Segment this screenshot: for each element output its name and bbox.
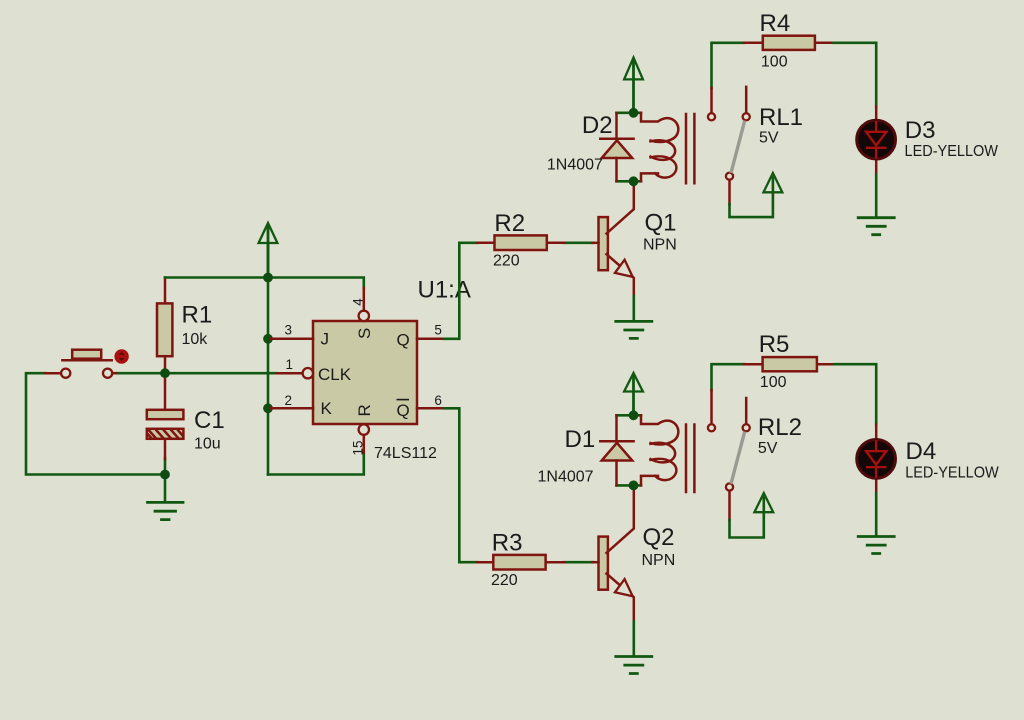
push button SW1 right contact circle xyxy=(103,369,112,378)
svg-text:Q1: Q1 xyxy=(645,209,677,236)
resistor R2 body xyxy=(495,235,547,250)
junction node: VCC / D2 / coil top xyxy=(629,108,639,118)
U1 pin 3 stub (J) xyxy=(271,338,314,341)
relay RL2 pole contact circle xyxy=(708,424,715,431)
relay RL1 core lines xyxy=(686,114,694,183)
wire: R4 to LED D3 xyxy=(834,43,877,107)
push button SW1 red actuator inner mark xyxy=(119,352,125,361)
resistor R4 left pin xyxy=(744,42,763,45)
relay RL2 core lines xyxy=(686,425,694,493)
transistor Q1 collector xyxy=(607,181,634,233)
capacitor C1 bottom plate xyxy=(147,429,184,439)
relay RL1 throw pin xyxy=(745,87,748,113)
power arrow VCC at RL2 common xyxy=(754,493,773,512)
svg-text:Q2: Q2 xyxy=(643,524,675,551)
ground symbol below Q2 xyxy=(616,657,652,674)
wire: RL1 common to VCC arrow xyxy=(730,178,773,218)
push button SW1 left contact circle xyxy=(61,369,70,378)
svg-text:10k: 10k xyxy=(182,331,209,348)
svg-text:J: J xyxy=(321,330,330,349)
wire: button left lead to loop xyxy=(26,373,165,474)
wire: R3 to Q2 base xyxy=(564,561,593,564)
diode D1 cathode bar xyxy=(600,440,633,443)
U1 Q-bar overline xyxy=(397,399,410,401)
LED D4 top pin xyxy=(875,425,878,439)
junction node: bus / pin K xyxy=(263,403,273,413)
svg-text:S: S xyxy=(355,328,374,339)
diode D2 body triangle xyxy=(602,140,633,158)
svg-text:R1: R1 xyxy=(182,302,213,329)
wire: Q-bar output to R3 xyxy=(444,408,478,562)
push button SW1 plunger xyxy=(72,350,101,359)
ground symbol below D3 xyxy=(858,218,894,235)
ground symbol below D4 xyxy=(858,537,894,554)
transistor Q2 base bar xyxy=(599,537,608,590)
capacitor C1 top pin xyxy=(164,373,167,410)
wire: LED D3 to ground xyxy=(875,175,878,218)
svg-text:220: 220 xyxy=(491,572,518,589)
svg-text:6: 6 xyxy=(434,393,442,408)
relay RL1 pole contact circle xyxy=(708,113,715,120)
resistor R5 body xyxy=(763,357,817,371)
wire: Q output to R2 xyxy=(444,243,478,339)
relay RL2 switch arm xyxy=(731,432,745,484)
wire: Q1 emitter to ground xyxy=(632,296,635,321)
resistor R3 left pin xyxy=(477,561,495,564)
svg-text:74LS112: 74LS112 xyxy=(374,445,437,462)
svg-text:2: 2 xyxy=(285,393,293,408)
IC U1:A 74LS112 JK flip-flop body xyxy=(313,321,417,424)
wire: VCC node to D1 and coil xyxy=(617,414,642,417)
diode D2 anode lead xyxy=(615,158,618,181)
transistor Q2 emitter arrow xyxy=(615,579,633,596)
relay RL2 common pin down xyxy=(728,491,731,521)
svg-text:1: 1 xyxy=(286,357,294,372)
capacitor C1 bottom plate hatch xyxy=(148,431,182,439)
U1 pin 2 stub (K) xyxy=(271,407,314,410)
push button SW1 right pin xyxy=(113,372,117,375)
resistor R1 bottom pin xyxy=(164,356,167,373)
U1 S bubble xyxy=(359,311,369,321)
resistor R1 top pin xyxy=(164,278,167,305)
svg-text:K: K xyxy=(321,399,333,418)
junction node: C1 bottom / loop / ground xyxy=(160,470,170,480)
LED D3 body xyxy=(857,120,896,159)
wire: R5 to LED D4 xyxy=(834,364,876,425)
svg-text:C1: C1 xyxy=(194,407,225,434)
power arrow VCC on flip-flop bus xyxy=(267,227,270,278)
ground symbol below C1 xyxy=(148,502,184,519)
svg-text:U1:A: U1:A xyxy=(418,277,471,304)
svg-text:4: 4 xyxy=(351,298,366,306)
transistor Q1 base bar xyxy=(599,217,608,270)
U1 pin 6 stub (Q-bar) xyxy=(417,407,444,410)
push button SW1 left pin xyxy=(45,372,61,375)
LED D3 bottom pin xyxy=(875,160,878,175)
svg-text:R: R xyxy=(355,404,374,416)
wire: C1 bottom to ground node xyxy=(164,458,167,502)
U1 pin 4 stub (S) xyxy=(363,288,366,310)
svg-text:5: 5 xyxy=(434,323,442,338)
U1 CLK bubble xyxy=(303,368,313,378)
diode D2 cathode bar xyxy=(600,138,633,141)
LED D4 bottom pin xyxy=(875,479,878,493)
svg-text:3: 3 xyxy=(285,323,293,338)
push button SW1 red actuator marker xyxy=(114,349,128,363)
diode D1 body triangle xyxy=(602,443,633,461)
relay RL1 common contact circle xyxy=(726,173,733,180)
diode D1 cathode lead xyxy=(615,415,618,440)
resistor R3 right pin xyxy=(547,561,565,564)
wire: top rail R1 to S pin xyxy=(165,278,364,289)
relay RL2 pole pin xyxy=(710,390,713,424)
wire: R2 to Q1 base xyxy=(564,242,593,245)
junction node: VCC / D1 / coil top xyxy=(629,410,639,420)
resistor R4 right pin xyxy=(814,42,834,45)
svg-text:CLK: CLK xyxy=(318,365,352,384)
relay RL1 coil xyxy=(641,113,678,182)
relay RL1 pole pin xyxy=(710,88,713,113)
wire: button right to CLK pin 1 xyxy=(116,372,277,375)
svg-text:10u: 10u xyxy=(194,436,221,453)
svg-text:NPN: NPN xyxy=(643,236,677,253)
svg-text:D2: D2 xyxy=(582,112,613,139)
transistor Q1 base pin xyxy=(593,242,599,245)
power arrow VCC above relay RL2 coil xyxy=(632,377,635,415)
wire: VCC node to D2 and coil xyxy=(617,112,642,115)
LED D4 body xyxy=(857,440,896,479)
relay RL2 common contact circle xyxy=(726,483,733,490)
svg-text:LED-YELLOW: LED-YELLOW xyxy=(905,143,999,160)
svg-text:1N4007: 1N4007 xyxy=(547,156,603,173)
resistor R5 right pin xyxy=(816,363,834,366)
svg-text:100: 100 xyxy=(761,54,788,71)
wire: VCC bus vertical xyxy=(267,243,270,475)
U1 R bubble xyxy=(359,424,369,434)
relay RL1 throw contact circle xyxy=(743,113,750,120)
svg-text:100: 100 xyxy=(760,374,787,391)
power arrow VCC at RL1 common xyxy=(764,173,783,192)
transistor Q2 base pin xyxy=(593,561,599,564)
wire: R4 to RL1 pole xyxy=(712,43,745,89)
LED D4 diode symbol xyxy=(866,440,886,478)
svg-text:D3: D3 xyxy=(905,117,936,144)
junction node: Q1 collector / D2 / coil bottom xyxy=(629,176,639,186)
wire: Q2 emitter to ground xyxy=(632,622,635,657)
svg-text:RL2: RL2 xyxy=(758,414,802,441)
LED D3 top pin xyxy=(875,107,878,120)
transistor Q2 emitter xyxy=(607,574,634,622)
wire: RL2 common to VCC arrow xyxy=(730,498,764,538)
svg-text:5V: 5V xyxy=(759,129,779,146)
transistor Q1 emitter xyxy=(607,254,634,296)
relay RL2 throw pin xyxy=(745,398,748,424)
transistor Q1 emitter arrow xyxy=(615,260,633,277)
svg-text:R4: R4 xyxy=(760,10,791,37)
svg-text:D1: D1 xyxy=(565,426,596,453)
svg-text:R3: R3 xyxy=(492,530,523,557)
svg-text:15: 15 xyxy=(351,440,366,455)
resistor R4 body xyxy=(763,36,815,50)
relay RL2 throw contact circle xyxy=(743,424,750,431)
resistor R2 left pin xyxy=(477,242,495,245)
svg-text:5V: 5V xyxy=(758,440,778,457)
resistor R1 body xyxy=(157,303,172,356)
relay RL1 switch arm xyxy=(731,121,745,173)
wire: bottom node to D2 and coil xyxy=(617,180,642,183)
relay RL1 common pin down xyxy=(728,180,731,205)
junction node: bus / pin J xyxy=(263,334,273,344)
svg-text:NPN: NPN xyxy=(642,552,676,569)
wire: LED D4 to ground xyxy=(875,493,878,536)
svg-text:RL1: RL1 xyxy=(759,104,803,131)
svg-text:1N4007: 1N4007 xyxy=(538,468,594,485)
svg-text:D4: D4 xyxy=(906,438,937,465)
wire: R5 to RL2 pole xyxy=(712,364,745,390)
diode D1 anode lead xyxy=(615,461,618,486)
capacitor C1 bottom pin xyxy=(164,439,167,459)
junction node: Q2 collector / D1 / coil bottom xyxy=(629,481,639,491)
resistor R2 right pin xyxy=(547,242,565,245)
diode D2 cathode lead xyxy=(615,113,618,138)
svg-text:Q: Q xyxy=(397,401,410,420)
push button SW1 contact bar xyxy=(62,359,111,362)
U1 pin 1 stub (CLK) xyxy=(277,372,303,375)
resistor R3 body xyxy=(493,555,545,570)
junction node: button/R1/C1/CLK xyxy=(160,368,170,378)
wire: bottom node to D1 and coil xyxy=(617,484,642,487)
resistor R5 left pin xyxy=(744,363,763,366)
svg-text:220: 220 xyxy=(493,252,520,269)
svg-text:R5: R5 xyxy=(759,331,790,358)
wire: bus bottom to R pin xyxy=(268,452,364,475)
U1 pin 5 stub (Q) xyxy=(417,338,444,341)
svg-text:Q: Q xyxy=(397,330,410,349)
relay RL2 coil xyxy=(641,415,678,485)
svg-text:LED-YELLOW: LED-YELLOW xyxy=(905,464,999,481)
transistor Q2 collector xyxy=(607,485,634,553)
ground symbol below Q1 xyxy=(616,321,652,338)
power arrow VCC above relay RL1 coil xyxy=(632,62,635,113)
LED D3 diode symbol xyxy=(866,121,886,159)
junction node: bus / top rail xyxy=(263,273,273,283)
svg-text:R2: R2 xyxy=(494,210,525,237)
U1 pin 15 stub (R) xyxy=(363,435,366,453)
capacitor C1 top plate xyxy=(147,410,184,419)
